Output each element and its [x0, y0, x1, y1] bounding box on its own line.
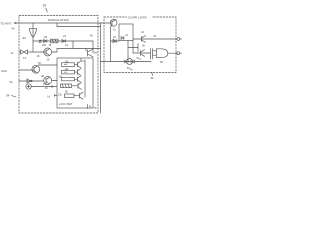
- output terminal bottom: [168, 52, 182, 55]
- svg-text:56: 56: [94, 51, 97, 55]
- transistor 11: [110, 19, 117, 31]
- svg-text:10: 10: [43, 4, 47, 8]
- reference numeral 10 with leader: [43, 4, 48, 13]
- capacitor input bars: [151, 49, 153, 60]
- svg-text:46: 46: [45, 88, 48, 90]
- wire: secondary top rail: [57, 23, 101, 27]
- diode 28: [39, 35, 47, 43]
- svg-text:24: 24: [65, 43, 68, 47]
- mirror collector bus: [84, 60, 86, 97]
- svg-text:11: 11: [113, 28, 116, 32]
- svg-text:MODULATOR: MODULATOR: [48, 18, 69, 22]
- svg-text:+VCC BAT: +VCC BAT: [59, 102, 73, 106]
- pass transistor 54: [133, 41, 150, 61]
- output terminal top: [177, 38, 181, 41]
- svg-text:48: 48: [41, 74, 44, 78]
- transistor pair 62: [124, 58, 142, 70]
- transistor 56: [86, 49, 97, 57]
- input port 12: [11, 51, 14, 55]
- resistor row3: [61, 84, 79, 94]
- svg-text:40: 40: [12, 27, 15, 31]
- matching funnel network 30: [29, 23, 36, 52]
- modulator label: [47, 17, 71, 23]
- resistor row2b: [59, 76, 81, 82]
- diode inside block: [121, 35, 129, 40]
- svg-text:TO ANT: TO ANT: [1, 22, 12, 26]
- svg-text:20: 20: [47, 58, 50, 62]
- wire: limiter bottom feed y61: [101, 41, 152, 62]
- wire: junction riser x73: [72, 41, 74, 49]
- svg-text:32: 32: [151, 76, 155, 80]
- reference numeral 34: [6, 94, 16, 98]
- diode 26: [111, 36, 120, 43]
- svg-text:28: 28: [44, 35, 47, 39]
- regulator block: [119, 24, 133, 41]
- transistor row3: [78, 82, 82, 89]
- resistor 12k row2: [62, 68, 78, 74]
- transistor row4: [80, 92, 84, 99]
- reference numeral 32: [151, 73, 155, 81]
- wire: limiter column x110.5: [110, 28, 112, 62]
- svg-text:22: 22: [63, 34, 66, 38]
- wire: into mirror y80.5: [52, 80, 57, 82]
- source 54 row y86.5: [26, 83, 57, 89]
- svg-text:EXC: EXC: [2, 69, 8, 73]
- current limiter dashed box: [104, 17, 176, 73]
- transistor row1: [78, 58, 86, 68]
- svg-text:14: 14: [23, 56, 26, 60]
- svg-text:34: 34: [6, 94, 10, 98]
- label 46b: [130, 70, 133, 72]
- gate 60: [153, 49, 168, 64]
- label 30: [23, 36, 27, 40]
- svg-text:51: 51: [154, 35, 157, 38]
- svg-text:4: 4: [140, 59, 142, 61]
- svg-text:36: 36: [142, 45, 145, 48]
- resistor 12k row1: [62, 61, 78, 67]
- svg-text:46: 46: [130, 70, 133, 72]
- svg-text:18a: 18a: [42, 44, 47, 47]
- capacitor 76: [88, 105, 97, 111]
- wire: supply column x100.5: [100, 23, 102, 113]
- svg-text:24: 24: [125, 35, 128, 37]
- TO ANT port label: [1, 22, 17, 31]
- pass transistor 31: [133, 30, 176, 48]
- inverter 44: [27, 79, 32, 83]
- svg-text:31: 31: [141, 30, 144, 34]
- resistor 12k row4: [58, 93, 80, 97]
- svg-text:CURR LMTR: CURR LMTR: [128, 16, 147, 20]
- label +VCC BAT: [59, 102, 73, 106]
- transistor 50: [32, 61, 42, 73]
- current mirror inner box: [57, 58, 93, 108]
- wire: top antenna rail: [14, 22, 112, 24]
- wire: base feed: [128, 44, 138, 52]
- svg-text:12k: 12k: [58, 93, 63, 96]
- svg-text:Id: Id: [48, 95, 51, 99]
- svg-text:12k: 12k: [65, 61, 70, 64]
- wire: collector bus x93: [92, 41, 94, 53]
- svg-text:52: 52: [10, 80, 13, 84]
- svg-text:46: 46: [90, 35, 93, 38]
- svg-text:50: 50: [38, 61, 41, 65]
- modulator block dashed box: [19, 16, 98, 114]
- svg-text:79a: 79a: [43, 83, 48, 86]
- input row y81: [10, 80, 44, 84]
- svg-text:76: 76: [94, 106, 97, 110]
- svg-text:30: 30: [23, 36, 27, 40]
- transistor row2: [78, 69, 82, 76]
- svg-text:18: 18: [49, 44, 52, 47]
- svg-text:12: 12: [11, 51, 14, 55]
- wire: row to mirror y65: [39, 64, 58, 66]
- svg-text:12k: 12k: [65, 68, 70, 71]
- wire: bias row y41: [33, 40, 93, 42]
- resistor box: [51, 39, 59, 43]
- input EXC row: [2, 69, 33, 73]
- diode 22: [62, 34, 68, 47]
- crystal 14: [19, 50, 28, 60]
- svg-text:16: 16: [37, 54, 40, 58]
- current limiter label: [127, 15, 152, 20]
- label 46: [90, 35, 93, 38]
- label Id: [48, 95, 58, 99]
- svg-text:60: 60: [160, 61, 163, 64]
- wire: inner rail y48.5: [57, 48, 101, 50]
- wire: to mirror box: [52, 49, 57, 53]
- transistor 18: [42, 44, 52, 62]
- svg-text:26: 26: [113, 36, 116, 39]
- transistor 48: [41, 74, 52, 90]
- wire: oscillator row y52: [28, 52, 44, 58]
- svg-text:58: 58: [65, 91, 68, 94]
